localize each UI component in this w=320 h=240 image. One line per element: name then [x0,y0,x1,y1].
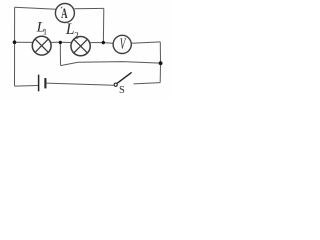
wire voltmeter to right corner [132,42,161,43]
wire node C drop down [59,43,61,66]
node B junction dot [102,41,105,44]
lamp L2 circle [71,36,90,55]
voltmeter V1 circle [113,35,131,53]
wire left vertical [14,7,16,86]
wire L2 to node B [90,42,102,44]
wire switch to battery [46,83,113,85]
ammeter needle speck [61,7,62,9]
ammeter A1 circle [55,4,74,23]
battery B1 short plate [44,78,46,88]
wire L1 to node C [51,41,59,43]
lamp L2 cross [74,39,88,53]
node C junction dot [59,41,62,44]
lamp L1 circle [32,36,51,55]
svg-text:L: L [65,21,75,38]
wire right vertical lower [159,63,161,82]
battery B1 long plate [38,75,40,92]
wire right vertical upper [159,42,161,63]
switch S lever [117,72,132,83]
wire battery to bottom-left corner [15,85,38,88]
wire node A to lamp L1 [15,41,33,43]
wire node B to voltmeter [105,42,113,45]
svg-text:S: S [119,85,125,96]
lamp L1 cross [35,39,48,52]
switch S pivot [114,83,117,86]
wire node C to lamp L2 [62,41,72,43]
wire top-right vertical down to node B [102,8,104,41]
svg-text:2: 2 [74,30,79,40]
wire lower bypass to right vertical [61,62,161,66]
wire ammeter to top-right corner [74,7,103,9]
node A junction dot [13,40,17,44]
wire bottom-right to switch [134,83,161,84]
svg-text:1: 1 [43,26,47,36]
svg-text:V: V [120,36,127,53]
node D junction dot [159,61,163,65]
wire top-left to ammeter [15,7,56,9]
